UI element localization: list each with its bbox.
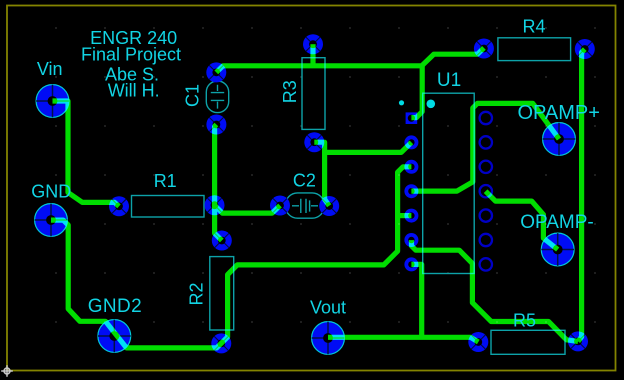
svg-text:R5: R5 [513, 310, 536, 330]
capacitor C1 outline [206, 81, 228, 113]
wire U1 pin 4 to OPAMP+ pad [411, 103, 559, 191]
wire R3 pin1 stub down to top bus [310, 44, 315, 66]
pad GND2 [98, 320, 131, 353]
svg-text:U1: U1 [437, 70, 461, 91]
pad R2 pad 1 [212, 231, 232, 251]
pad R1 pad 2 [205, 195, 225, 215]
svg-text:Final Project: Final Project [81, 44, 181, 64]
pad Vin [36, 85, 69, 118]
pad GND [35, 204, 68, 237]
pad R1 pad 1 [109, 196, 129, 216]
wire C1 pin1 stub to top bus [216, 48, 484, 73]
pad R3 pad 1 [303, 34, 323, 54]
wire GND pad via GND2 and R2 pin2 up to U1 pin 3 [51, 167, 411, 348]
wire U1 pin 7 down to Vout bus [411, 264, 421, 337]
svg-text:Vout: Vout [310, 298, 346, 318]
wire stub junction to U1 pin 5 [398, 213, 412, 218]
svg-text:R2: R2 [187, 282, 207, 305]
resistor R5 outline [491, 330, 565, 354]
wire U1 pin 11 to OPAMP- pad [486, 191, 558, 249]
traces layer (bottom copper, green) [51, 44, 585, 348]
svg-text:GND2: GND2 [88, 296, 142, 317]
wire R4 pin2 down right edge to R5 pin2 [578, 49, 585, 341]
pad C1 pad 1 [206, 62, 226, 82]
svg-text:C1: C1 [183, 84, 203, 107]
svg-text:OPAMP-: OPAMP- [520, 212, 594, 233]
grid dots [55, 27, 596, 323]
pads layer [35, 34, 595, 354]
resistor R3 outline [302, 58, 325, 130]
U1 pin 11 pad [480, 185, 492, 197]
pad C1 pad 2 [206, 115, 226, 135]
pad C2 pad 1 [270, 196, 290, 216]
pad R3 pad 2 [304, 132, 324, 152]
wire top bus branch down to U1 pin 1 [411, 66, 422, 118]
pad R5 pad 2 [568, 331, 588, 351]
capacitor C2 outline [286, 193, 325, 218]
svg-text:Vin: Vin [37, 59, 63, 79]
resistor R1 outline [132, 196, 205, 218]
resistor R2 outline [210, 257, 234, 330]
U1 pin 3 pad [404, 160, 418, 174]
wire U1 pin 6 to R5 pin2 [412, 240, 579, 341]
svg-text:R3: R3 [280, 80, 300, 103]
pad R5 pad 1 [468, 332, 488, 352]
pad Vout [312, 322, 345, 355]
svg-text:OPAMP+: OPAMP+ [517, 102, 599, 124]
svg-text:C2: C2 [293, 171, 316, 191]
U1 pin 9 pad [480, 234, 492, 246]
wire R1 pin2 to C2 pin1 [215, 205, 281, 213]
pad R4 pad 1 [474, 39, 494, 59]
wire Vout pad to R5 pin1 [328, 337, 478, 342]
U1 pin 8 pad [480, 258, 492, 270]
wire R3 pin2 junction to U1 pin 2 [325, 142, 412, 152]
pad R2 pad 2 [211, 333, 231, 353]
pad OPAMP- [541, 233, 574, 266]
svg-text:R1: R1 [154, 171, 177, 191]
wire Vin pad to R1 pin1 [53, 101, 120, 206]
pad C2 pad 2 [319, 196, 339, 216]
U1 pin 14 pad [480, 112, 492, 124]
U1 pin 1 square pad [406, 112, 418, 124]
pad OPAMP+ [543, 123, 576, 156]
pad R4 pad 2 [575, 39, 595, 59]
U1 pin 13 pad [480, 136, 492, 148]
U1 pin 2 pad [404, 135, 418, 149]
U1 pin 4 pad [404, 184, 418, 198]
svg-text:Will H.: Will H. [108, 81, 160, 101]
U1 pin 7 pad [404, 257, 418, 271]
IC U1 outline [423, 93, 475, 273]
svg-text:GND: GND [31, 182, 71, 202]
via dot left of U1 [399, 100, 404, 105]
U1 pin 6 pad [404, 233, 418, 247]
U1 pin-1 marker dot [427, 100, 436, 109]
U1 pin 10 pad [480, 209, 492, 221]
U1 pin 12 pad [480, 161, 492, 173]
U1 pin 5 pad [404, 209, 418, 223]
resistor R4 outline [498, 38, 571, 61]
wire R3 pin2 to C2 pin2 [314, 142, 329, 206]
wire C1 pin2 down through R1 pin2 to R2 pin1 [215, 125, 222, 241]
svg-text:R4: R4 [522, 16, 545, 36]
origin crosshair marker [1, 365, 13, 377]
